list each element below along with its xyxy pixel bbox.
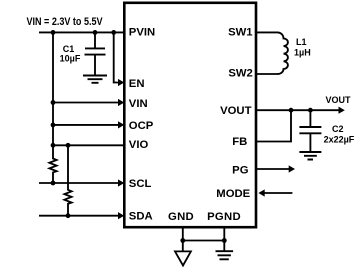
svg-text:PVIN: PVIN: [129, 26, 155, 38]
svg-text:10µF: 10µF: [60, 54, 81, 64]
svg-text:VOUT: VOUT: [220, 105, 251, 117]
svg-text:VOUT: VOUT: [326, 95, 352, 105]
svg-text:1µH: 1µH: [294, 48, 311, 58]
svg-text:SDA: SDA: [129, 211, 153, 223]
svg-text:SW1: SW1: [228, 26, 252, 38]
svg-text:VIN = 2.3V to 5.5V: VIN = 2.3V to 5.5V: [27, 16, 103, 28]
svg-text:C2: C2: [332, 124, 344, 134]
svg-text:EN: EN: [129, 78, 145, 90]
svg-text:VIO: VIO: [129, 139, 149, 151]
svg-text:C1: C1: [63, 44, 75, 54]
svg-text:VIN: VIN: [129, 98, 148, 110]
svg-text:L1: L1: [296, 37, 307, 47]
svg-text:PGND: PGND: [207, 211, 241, 223]
svg-text:MODE: MODE: [216, 188, 250, 200]
svg-text:2x22µF: 2x22µF: [324, 134, 355, 144]
svg-text:SCL: SCL: [129, 178, 152, 190]
svg-text:SW2: SW2: [228, 68, 252, 80]
svg-text:GND: GND: [168, 211, 194, 223]
svg-text:OCP: OCP: [129, 120, 154, 132]
svg-text:FB: FB: [232, 136, 247, 148]
svg-text:PG: PG: [232, 164, 249, 176]
